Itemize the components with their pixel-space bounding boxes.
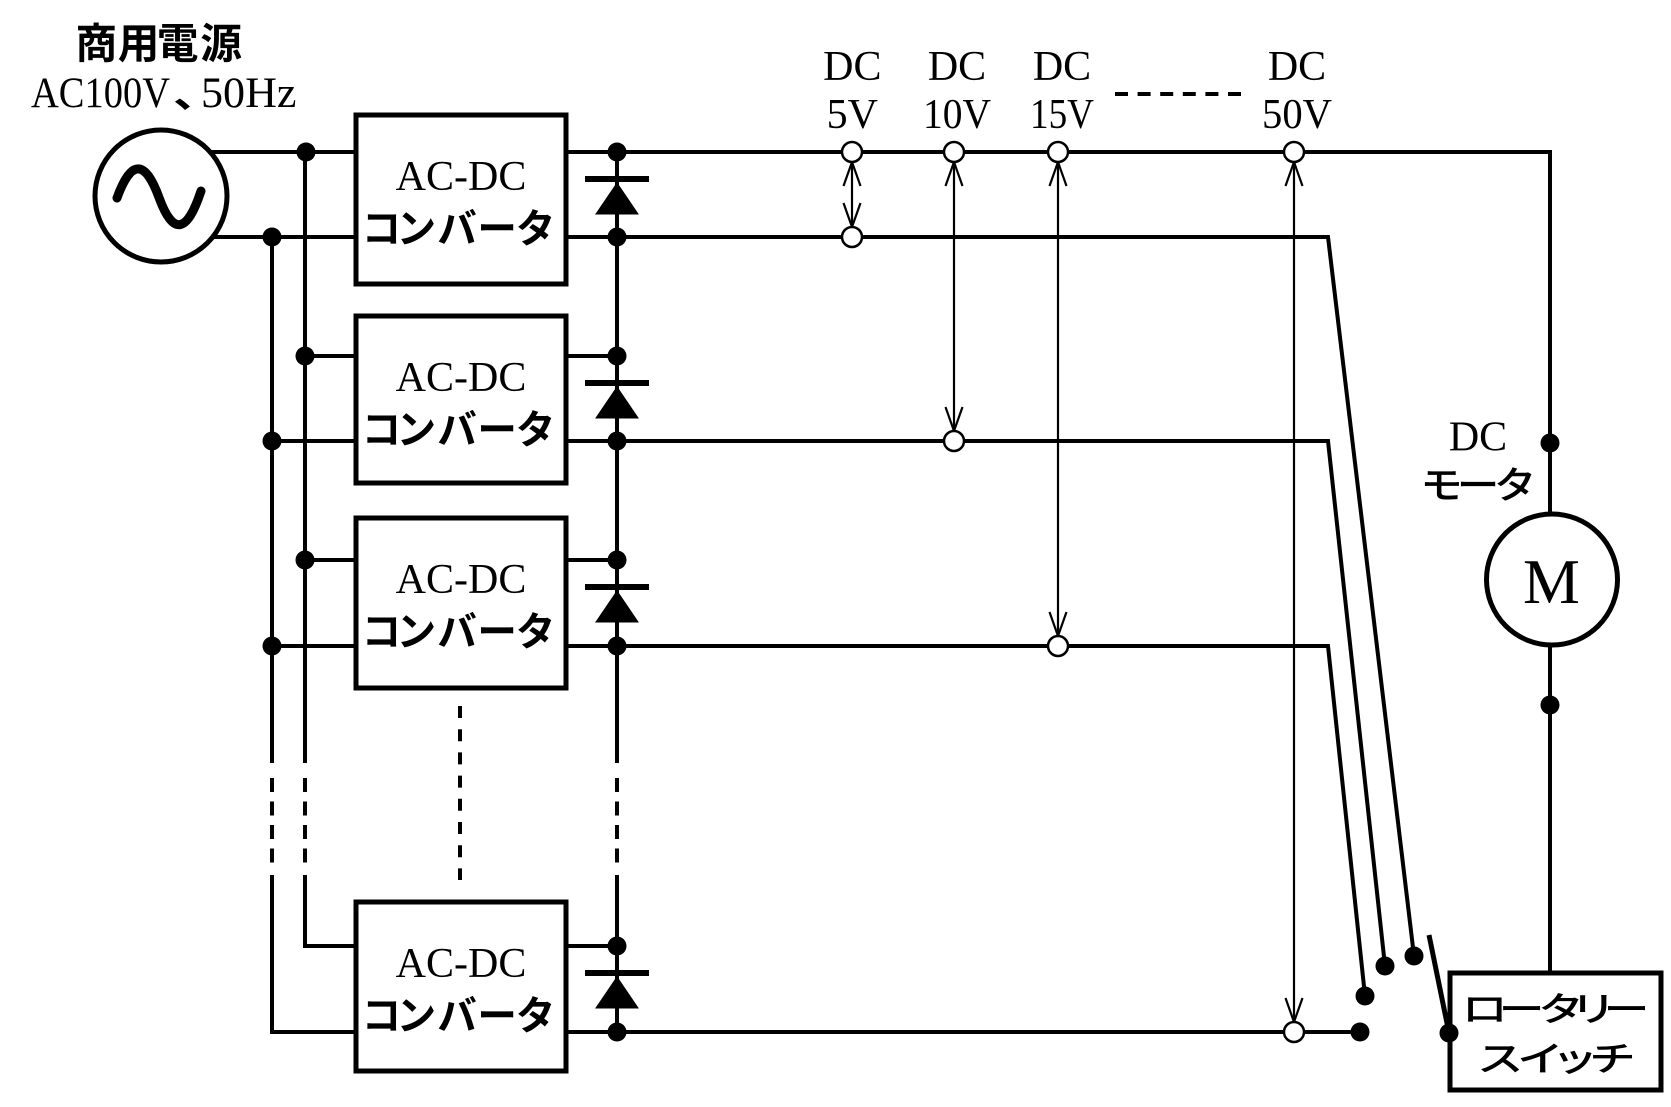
junction motor feed upper [1541,434,1560,453]
converter U4 AC-DC box [356,902,566,1071]
ellipsis dashes between U3 and U4 [458,706,462,880]
svg-text:AC-DC: AC-DC [396,154,527,200]
wire source bottom to U1 [212,235,356,239]
rotary switch SW1 box [1450,973,1661,1090]
diode D3 [585,587,649,622]
wire bus B to U3 [272,644,356,648]
junction bus A / top rail [297,143,316,162]
switch wiper lever [1429,935,1449,1033]
junction bus B / line2 [263,228,282,247]
wire diode bus x617 [615,152,619,1032]
wire U3 top output to diode bus [566,558,617,562]
junction diode bus / U3 top output [608,551,627,570]
junction D2 anode bus / U2 top output [608,347,627,366]
svg-text:5V: 5V [827,92,878,138]
svg-text:DC: DC [823,44,881,90]
switch contact 10V [1376,957,1395,976]
measure arrow 50V [1286,162,1303,1022]
label DC 5V [823,44,881,138]
node 5V plus terminal [842,142,862,162]
wire 15V rail and diagonal to contact [566,646,1365,996]
wire 50V rail [566,1030,1360,1034]
junction motor feed lower [1541,696,1560,715]
node 15V plus terminal [1048,142,1068,162]
junction diode bus / 50V rail [608,1023,627,1042]
junction diode bus / 10V rail [608,432,627,451]
switch contact 5V [1405,947,1424,966]
junction diode bus / 15V rail [608,637,627,656]
ellipsis dashes between 15V and 50V labels [1115,92,1243,96]
wire bus A vertical [305,152,356,946]
node 5V minus terminal [842,227,862,247]
svg-text:DC: DC [1268,44,1326,90]
switch common pole [1440,1024,1459,1043]
wire source top to U1 [210,150,356,154]
label DC 50V [1262,44,1332,138]
svg-text:M: M [1523,546,1580,617]
label モータ [1425,467,1532,500]
node 10V plus terminal [944,142,964,162]
wire bus A to U2 [305,354,356,358]
svg-text:DC: DC [1449,415,1507,461]
wire U4 top output to diode bus [566,944,617,948]
label DC 10V [923,44,991,138]
node 50V plus terminal [1284,142,1304,162]
junction bus B / U3 input [263,637,282,656]
ac source V1 commercial power [95,130,227,262]
svg-text:10V: 10V [923,92,991,138]
wire top plus rail [566,150,1550,154]
wire U2 top output to diode bus [566,354,617,358]
converter U2 AC-DC box [356,316,566,483]
svg-text:AC-DC: AC-DC [396,557,527,603]
svg-text:AC-DC: AC-DC [396,941,527,987]
svg-text:15V: 15V [1030,92,1094,138]
svg-text:AC-DC: AC-DC [396,355,527,401]
diode D4 [585,973,649,1008]
node 10V rail terminal [944,431,964,451]
wire bus A to U3 [305,558,356,562]
wire bus B to U2 [272,439,356,443]
svg-text:DC: DC [1033,44,1091,90]
junction bus A / U2 input [296,347,315,366]
switch contact 50V [1351,1023,1370,1042]
wire motor to rotary switch [1548,645,1552,975]
converter U3 AC-DC box [356,518,566,688]
junction bus B / U2 input [263,432,282,451]
label DC 15V [1030,44,1094,138]
svg-text:AC100V: AC100V [31,70,170,117]
junction D1 anode / U1 output [608,228,627,247]
svg-text:50V: 50V [1262,92,1332,138]
junction bus A / U3 input [296,551,315,570]
label 商用電源 [78,23,241,63]
label AC100V、50Hz [31,70,297,117]
measure arrow 15V [1050,162,1067,636]
node 50V rail terminal [1284,1022,1304,1042]
wire 10V rail and diagonal to contact [566,441,1385,966]
measure arrow 5V [844,162,861,227]
measure arrow 10V [946,162,963,431]
svg-text:DC: DC [928,44,986,90]
converter U1 AC-DC box [356,115,566,284]
diode D1 [585,179,649,214]
junction diode bus / U4 top output [608,937,627,956]
wire bus B vertical [272,237,356,1032]
wire 5V rail and diagonal to contact [566,237,1414,956]
dc motor M1 [1487,514,1618,645]
node 15V rail terminal [1048,636,1068,656]
junction D1 cathode / top rail [608,143,627,162]
svg-text:50Hz: 50Hz [201,70,297,117]
label ロータリー [1468,993,1645,1023]
wire top rail drop to motor [1548,150,1552,514]
label スイッチ [1481,1043,1632,1074]
switch contact 15V [1356,987,1375,1006]
diode D2 [585,383,649,418]
